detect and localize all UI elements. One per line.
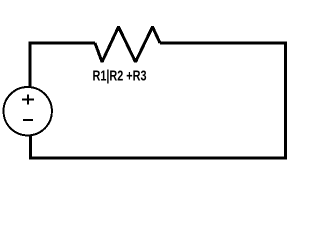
- wire: left vertical from source top to top-left corner, then top wire to resistor: [30, 43, 95, 88]
- resistor R1|R2 +R3 (equivalent resistance, zigzag): [95, 27, 160, 62]
- plus terminal mark of source: [22, 98, 34, 100]
- wire: top wire from resistor to top-right corner, right side, bottom wire, up to source bottom: [31, 43, 286, 158]
- minus terminal mark of source: [23, 119, 33, 121]
- voltage source V1: [4, 87, 52, 135]
- svg-text:R1|R2 +R3: R1|R2 +R3: [93, 69, 147, 85]
